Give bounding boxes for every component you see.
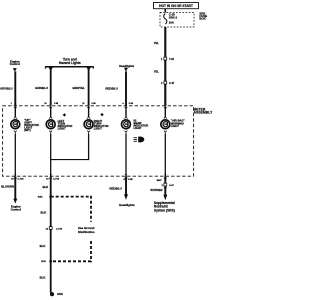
svg-text:Y-10: Y-10: [169, 58, 175, 61]
svg-text:YEL: YEL: [154, 70, 159, 74]
svg-text:G401: G401: [38, 195, 43, 198]
svg-text:2: 2: [162, 185, 164, 187]
svg-text:C-718: C-718: [18, 178, 25, 180]
svg-text:WHT/RED: WHT/RED: [150, 188, 162, 192]
svg-text:1: 1: [11, 103, 12, 105]
svg-text:4: 4: [122, 102, 124, 105]
svg-text:LIGHT: LIGHT: [171, 124, 179, 128]
svg-text:SRS-2: SRS-2: [169, 15, 178, 19]
svg-text:C-55: C-55: [129, 103, 133, 105]
svg-text:C-718: C-718: [53, 178, 60, 180]
svg-text:GRN/BLU: GRN/BLU: [35, 86, 48, 90]
svg-text:Distribution.: Distribution.: [78, 230, 95, 234]
svg-text:C-47: C-47: [169, 82, 175, 85]
svg-text:BLK: BLK: [40, 275, 46, 279]
svg-text:2: 2: [161, 82, 163, 85]
svg-text:C-55: C-55: [54, 103, 58, 105]
svg-text:G401: G401: [57, 293, 64, 296]
svg-text:WHT: WHT: [157, 180, 163, 182]
svg-text:11: 11: [82, 103, 84, 105]
svg-text:16: 16: [46, 178, 49, 180]
svg-text:1: 1: [161, 58, 163, 61]
svg-text:10: 10: [44, 103, 46, 105]
svg-text:LIGHT: LIGHT: [134, 126, 142, 130]
svg-text:C-55: C-55: [128, 179, 134, 181]
svg-text:14: 14: [46, 227, 49, 230]
svg-text:RED/BLU: RED/BLU: [109, 187, 121, 191]
svg-text:Headlights: Headlights: [119, 64, 135, 68]
svg-text:C-47: C-47: [169, 184, 175, 187]
svg-text:(M/T): (M/T): [24, 128, 31, 132]
svg-text:BLK: BLK: [41, 261, 46, 263]
svg-text:16: 16: [11, 178, 14, 180]
svg-text:Control: Control: [11, 208, 21, 212]
svg-text:BOX: BOX: [199, 17, 205, 21]
svg-text:HOT IN ON OR START: HOT IN ON OR START: [159, 4, 193, 8]
svg-text:C-718: C-718: [56, 228, 63, 230]
svg-text:C-55: C-55: [92, 103, 96, 105]
svg-text:Headlights: Headlights: [119, 203, 135, 207]
svg-text:LIGHT: LIGHT: [94, 127, 102, 131]
svg-text:RED/BLU: RED/BLU: [105, 86, 117, 90]
svg-text:System (SRS): System (SRS): [154, 208, 175, 212]
svg-text:BLK: BLK: [42, 185, 48, 189]
svg-text:BLK: BLK: [40, 244, 46, 248]
svg-text:YEL: YEL: [154, 41, 159, 45]
svg-text:10A: 10A: [169, 20, 174, 24]
svg-text:GRY/BLU: GRY/BLU: [0, 86, 12, 90]
svg-text:ASSEMBLY: ASSEMBLY: [194, 111, 214, 115]
svg-text:Hazard Lights: Hazard Lights: [59, 61, 81, 65]
svg-text:Control: Control: [10, 62, 20, 66]
svg-text:BLK: BLK: [41, 210, 47, 214]
svg-text:BLU/GRN: BLU/GRN: [1, 185, 14, 189]
svg-text:GRN/YEL: GRN/YEL: [72, 86, 85, 90]
svg-text:LIGHT: LIGHT: [58, 127, 66, 131]
